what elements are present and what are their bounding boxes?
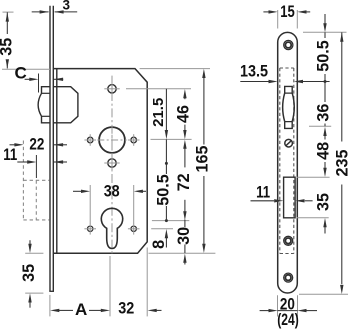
dim 50.5 left view <box>165 162 168 165</box>
witness cylinder screws right <box>151 228 173 230</box>
svg-text:235: 235 <box>333 149 350 176</box>
svg-text:50.5: 50.5 <box>155 174 173 206</box>
svg-text:(24): (24) <box>277 311 299 329</box>
svg-text:36: 36 <box>314 104 332 122</box>
vertical centerline of lock case <box>111 76 113 254</box>
svg-text:13.5: 13.5 <box>240 63 268 81</box>
latchbolt tail inside case <box>54 87 78 123</box>
hidden profile cylinder body (dashed) <box>22 141 24 220</box>
faceplate front view (rounded ends) <box>278 32 298 293</box>
svg-text:11: 11 <box>256 184 270 202</box>
svg-text:22: 22 <box>29 136 44 154</box>
witness follower center right <box>151 138 192 140</box>
dim 21.5 <box>165 89 167 131</box>
bottom fixing screw hole <box>284 273 293 282</box>
dim 32 <box>146 248 148 317</box>
dim 235 <box>341 32 343 42</box>
dim 35 top left <box>3 11 14 13</box>
hole below follower <box>108 159 116 167</box>
svg-text:32: 32 <box>118 300 134 318</box>
dim 35 bottom left <box>25 252 43 254</box>
svg-text:38: 38 <box>104 182 120 200</box>
middle fixing screw (slotted) <box>285 139 293 147</box>
witness cutout top right <box>297 176 330 178</box>
svg-text:3: 3 <box>62 0 70 13</box>
witness plate top right <box>303 31 347 33</box>
dim A backset <box>49 295 51 317</box>
lock case outline <box>54 69 148 254</box>
dim 36 right view <box>324 82 326 103</box>
cylinder cut-out <box>284 177 296 218</box>
dot end of 50.5 <box>324 80 327 83</box>
svg-text:8: 8 <box>150 240 168 249</box>
svg-text:35: 35 <box>314 193 332 211</box>
witness case top extended left <box>2 68 50 70</box>
dim 15 plate width <box>277 10 279 29</box>
dim 46 <box>183 89 186 98</box>
hidden lock case behind plate (dashed) <box>279 68 281 254</box>
dim 50.5 right view <box>324 14 326 24</box>
witness line 11 <box>35 155 37 178</box>
witness latch tip <box>38 74 40 93</box>
svg-text:21.5: 21.5 <box>150 98 167 127</box>
follower hole <box>99 127 125 153</box>
witness cylinder center right <box>152 220 189 222</box>
dim 22 cylinder projection <box>10 144 16 146</box>
witness top hole center right <box>126 88 191 90</box>
witness lines 38 <box>89 185 91 223</box>
svg-text:30: 30 <box>175 227 193 245</box>
witness case bottom right <box>149 252 216 254</box>
witness cutout bottom right <box>297 217 329 219</box>
witness latch bottom right <box>309 125 331 127</box>
dim 11 cylinder projection <box>17 161 28 163</box>
top spindle hole <box>108 85 116 93</box>
latchbolt protruding (side view) <box>38 87 50 123</box>
euro profile cylinder hole <box>101 208 122 248</box>
top fixing screw hole <box>284 40 293 49</box>
cylinder fixing hole right <box>131 226 136 231</box>
svg-text:11: 11 <box>3 146 17 164</box>
follower fixing hole right <box>131 137 137 143</box>
svg-text:50.5: 50.5 <box>314 40 332 72</box>
svg-text:35: 35 <box>0 38 16 56</box>
svg-text:15: 15 <box>280 3 295 21</box>
svg-text:46: 46 <box>175 105 193 123</box>
dim 30 <box>184 220 186 227</box>
svg-text:48: 48 <box>314 142 332 160</box>
dim 48 right view <box>323 127 326 136</box>
lower fixing screw hole <box>284 236 293 245</box>
dim 3 faceplate thickness <box>32 11 49 13</box>
faceplate (side view, 3 mm thick) <box>49 6 51 292</box>
svg-text:35: 35 <box>20 264 38 282</box>
dim 38 fixing holes distance <box>73 190 82 192</box>
witness plate bottom right <box>299 293 348 295</box>
latchbolt front view <box>285 86 293 93</box>
dim 20 (24) plate width bottom <box>277 295 279 316</box>
svg-text:72: 72 <box>175 173 193 191</box>
follower fixing hole left <box>87 137 93 143</box>
witness case top right <box>140 68 210 70</box>
svg-text:165: 165 <box>194 145 212 172</box>
svg-text:A: A <box>75 300 87 319</box>
dim 72 <box>183 140 186 149</box>
cylinder fixing hole left <box>88 226 93 231</box>
dim 8 left view <box>165 229 168 238</box>
dim 165 <box>202 69 205 78</box>
